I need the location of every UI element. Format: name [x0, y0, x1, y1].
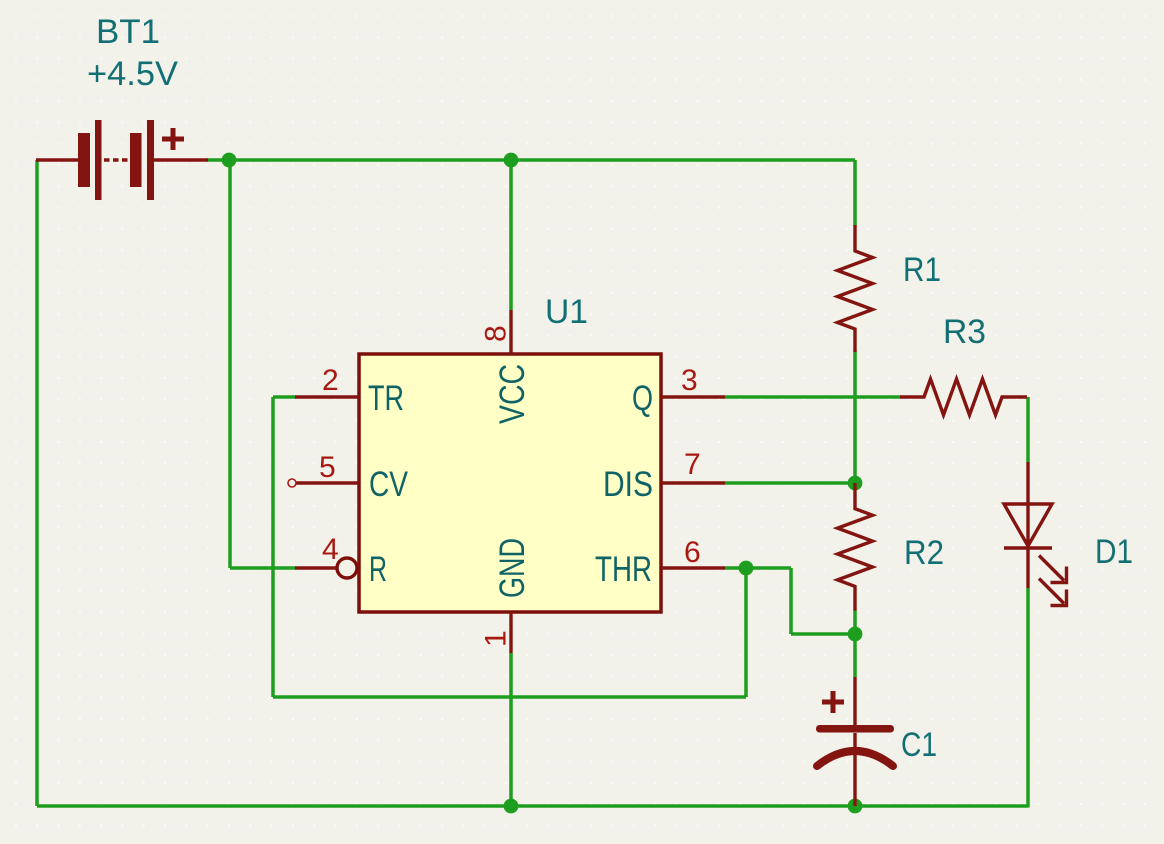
svg-text:R: R: [369, 550, 387, 589]
wire THR junction right: [746, 566, 791, 570]
svg-text:GND: GND: [493, 538, 532, 598]
op-amp U1 body: [359, 354, 661, 612]
wire reset net horizontal to pin 4: [230, 566, 296, 570]
svg-text:BT1: BT1: [96, 13, 160, 51]
junction at THR node: [739, 561, 754, 576]
wire LED cathode down: [1026, 588, 1030, 808]
svg-text:3: 3: [681, 364, 698, 397]
svg-text:D1: D1: [1095, 533, 1133, 571]
svg-text:Q: Q: [632, 379, 653, 418]
wire TR pin stub: [273, 395, 296, 399]
pin 6 THR stub: [661, 566, 725, 569]
wire R1 bottom to DIS junction: [853, 351, 857, 483]
pin 4 R stub with inversion bubble: [295, 558, 357, 578]
svg-text:DIS: DIS: [603, 465, 653, 504]
junction at GND bottom: [504, 799, 519, 814]
svg-text:+4.5V: +4.5V: [87, 55, 178, 93]
junction at DIS node: [848, 476, 863, 491]
svg-text:1: 1: [480, 630, 513, 647]
LED D1: [1004, 462, 1067, 606]
wire DIS pin to junction: [725, 481, 855, 485]
wire R2 bottom to junction: [853, 610, 857, 635]
capacitor C1: [816, 677, 894, 806]
svg-text:R2: R2: [904, 534, 944, 572]
wire THR pin to junction: [725, 566, 746, 570]
wire junction to C1: [853, 634, 857, 677]
wire reset net vertical: [228, 160, 232, 568]
svg-text:8: 8: [480, 325, 513, 342]
wire R3 to LED anode: [1026, 397, 1030, 462]
junction at C1 bottom: [848, 799, 863, 814]
pin 7 DIS stub: [661, 481, 725, 484]
svg-text:TR: TR: [368, 379, 404, 418]
svg-text:4: 4: [322, 533, 339, 566]
svg-text:R1: R1: [903, 251, 941, 289]
svg-text:VCC: VCC: [493, 364, 532, 424]
svg-text:C1: C1: [901, 726, 937, 764]
svg-text:5: 5: [319, 451, 336, 484]
pin 3 Q stub: [661, 395, 725, 398]
svg-text:R3: R3: [943, 313, 986, 351]
battery BT1: [36, 120, 208, 200]
wire THR step down: [789, 568, 793, 634]
svg-text:6: 6: [684, 536, 701, 569]
svg-text:CV: CV: [369, 465, 409, 504]
pin 1 GND stub: [509, 612, 512, 653]
junction at battery output: [222, 153, 237, 168]
wire left vertical rail: [35, 160, 39, 806]
wire THR step right to R2 junction: [791, 632, 855, 636]
wire TR net bottom horizontal: [273, 695, 746, 699]
pin 5 CV stub: [288, 479, 359, 487]
junction at VCC tap: [504, 153, 519, 168]
resistor R1: [838, 225, 873, 352]
wire bottom rail: [37, 804, 1028, 808]
wire THR junction down: [744, 568, 748, 697]
svg-text:2: 2: [322, 364, 339, 397]
pin 2 TR stub: [295, 395, 359, 398]
pin 8 VCC stub: [509, 310, 512, 354]
wire TR net vertical: [271, 397, 275, 697]
resistor R2: [838, 483, 873, 611]
svg-text:7: 7: [684, 448, 701, 481]
svg-text:THR: THR: [595, 550, 652, 589]
wire Q output to R3: [725, 395, 901, 399]
wire top rail to R1: [853, 160, 857, 226]
wire VCC pin drop: [509, 160, 513, 310]
junction at R2-C1 node: [848, 627, 863, 642]
wire GND pin drop: [509, 653, 513, 806]
resistor R3: [900, 379, 1027, 415]
svg-text:U1: U1: [545, 293, 588, 331]
wire top VCC rail: [207, 158, 855, 162]
